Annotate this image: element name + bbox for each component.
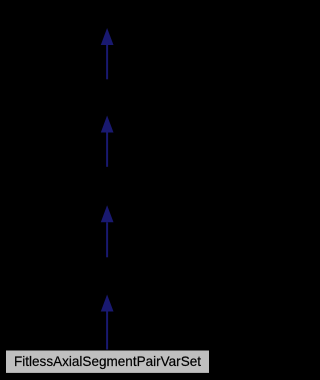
class box FitlessAxialSegmentPairVarSet bbox=[6, 350, 210, 373]
arrow 1 (top inheritance arrow) bbox=[101, 28, 114, 79]
arrow 3 bbox=[101, 205, 114, 257]
arrow 4 (arrow into FitlessAxialSegmentPairVarSet) bbox=[101, 295, 114, 351]
arrow 2 bbox=[101, 116, 114, 167]
svg-text:FitlessAxialSegmentPairVarSet: FitlessAxialSegmentPairVarSet bbox=[14, 353, 201, 369]
inheritance diagram bbox=[0, 0, 215, 380]
